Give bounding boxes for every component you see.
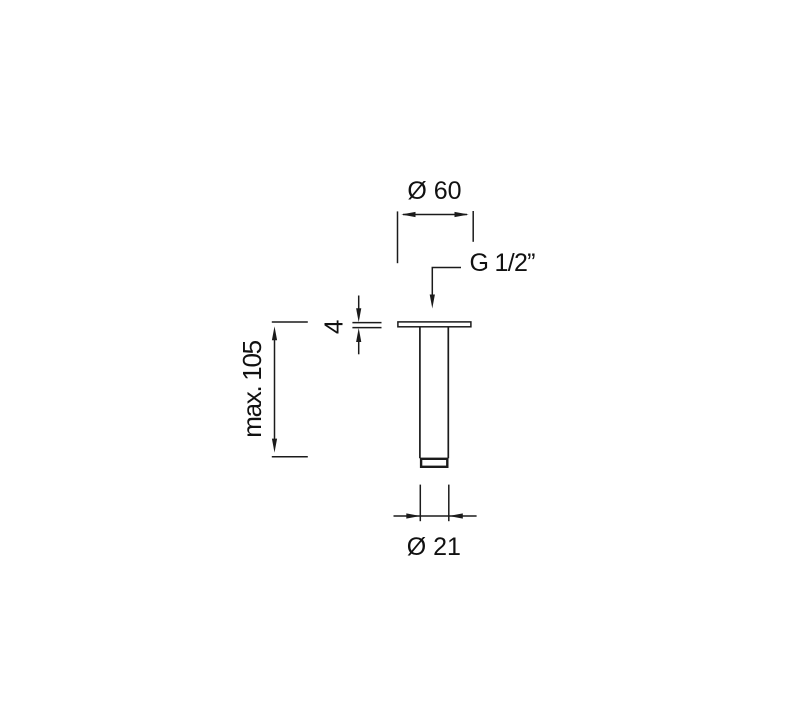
dimension max. 105 lines <box>272 322 308 457</box>
arrowhead pointing left (Ø 21 right) <box>449 513 463 518</box>
arrowhead up (max.105 top) <box>272 326 277 340</box>
extension line left <box>419 485 421 522</box>
vertical dimension line <box>274 340 276 440</box>
arrowhead left (Ø 60) <box>401 212 415 217</box>
flange plate <box>398 322 471 327</box>
arrowhead down (max.105 bottom) <box>272 439 277 453</box>
bottom collar ring <box>421 459 447 467</box>
leader line for G 1/2 <box>432 268 461 297</box>
shower arm tube left wall <box>419 327 421 458</box>
shaft above <box>358 296 360 310</box>
arrowhead right (Ø 60) <box>455 212 469 217</box>
extension line right <box>448 485 450 522</box>
shaft below <box>358 342 360 355</box>
dimension Ø 60 lines <box>398 211 474 263</box>
dimension line <box>394 515 477 517</box>
svg-text:Ø 60: Ø 60 <box>407 177 461 205</box>
svg-text:Ø 21: Ø 21 <box>407 533 461 561</box>
arrowhead down (4, top) <box>356 308 361 322</box>
dimension 4 lines <box>352 296 381 355</box>
arrowhead up (4, bottom) <box>356 328 361 342</box>
tick top <box>352 322 381 324</box>
dimension line <box>403 214 467 216</box>
shower arm tube right wall <box>447 327 449 458</box>
tick top <box>272 321 308 323</box>
tick bottom <box>272 456 308 458</box>
extension line right <box>472 211 474 242</box>
dimension Ø 21 lines <box>394 485 477 522</box>
tick bottom <box>352 327 381 329</box>
svg-text:G 1/2”: G 1/2” <box>470 249 536 277</box>
svg-text:4: 4 <box>318 320 348 334</box>
extension line left <box>397 211 399 263</box>
leader arrowhead (down) <box>430 295 435 309</box>
svg-text:max. 105: max. 105 <box>237 340 267 437</box>
arrowhead pointing right (Ø 21 left) <box>406 513 420 518</box>
